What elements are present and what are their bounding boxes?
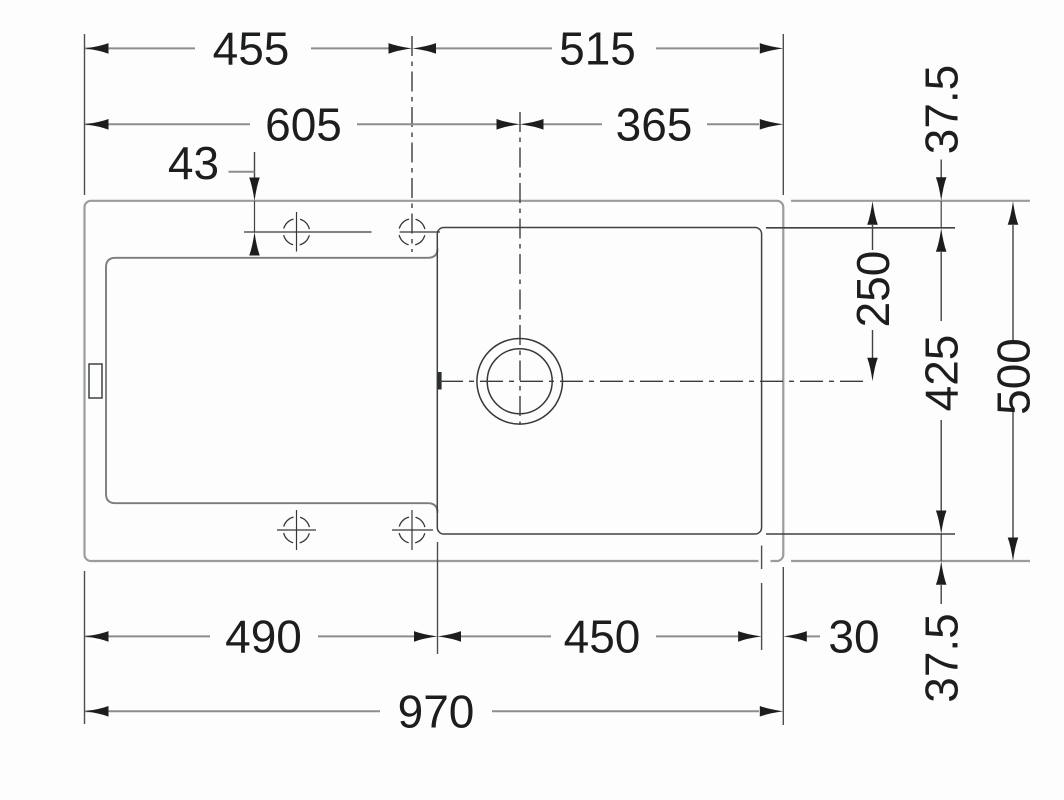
dim 500 x=1013 (1008, 201, 1019, 225)
gap in rim bottom edge at bowl extension crossing (759, 556, 771, 566)
svg-text:455: 455 (213, 23, 290, 75)
svg-text:250: 250 (847, 251, 899, 328)
dim 37.5 top right x=941 (940, 160, 942, 179)
svg-text:37.5: 37.5 (916, 613, 968, 703)
extension line x=437.5 bottom (437, 542, 439, 654)
dim 425 x=941 (936, 228, 947, 252)
svg-text:37.5: 37.5 (916, 65, 968, 155)
svg-text:30: 30 (828, 611, 879, 663)
drainboard outline (106, 249, 438, 513)
sink outer rim outline (85, 201, 784, 561)
svg-text:970: 970 (398, 685, 475, 737)
svg-text:605: 605 (265, 98, 342, 150)
centerline vertical through drain x=520 (519, 112, 521, 424)
tap hole bottom-left circle (283, 517, 309, 543)
tap hole bottom-right cross (411, 510, 413, 550)
tap hole bottom-right circle (399, 517, 425, 543)
svg-text:490: 490 (225, 611, 302, 663)
extension line x=783 bottom (782, 567, 784, 725)
svg-text:365: 365 (616, 98, 693, 150)
dimension row 605/365 y=124.3 (85, 123, 759, 125)
svg-text:515: 515 (559, 23, 636, 75)
dim 37.5 bottom right x=941 (940, 534, 942, 561)
svg-text:500: 500 (988, 338, 1040, 415)
dim 43 vertical line x=254.5 (254, 152, 256, 178)
overflow slot on drainboard left edge (89, 364, 102, 398)
extension line top edge y=201 right (791, 200, 1030, 202)
extension line bottom edge y=561 right (791, 560, 1030, 562)
dim 43 leader (229, 171, 255, 173)
tap hole top-left vertical centerline (296, 212, 298, 252)
extension line bowl bottom y=534 right (766, 533, 955, 535)
extension line right x=783 top (782, 34, 784, 195)
dimension row 970 y=711.3 (85, 710, 759, 712)
dim 43 arrows (249, 178, 260, 202)
bowl outline (437, 228, 761, 535)
dimension row 490/450/30 y=636.4 (85, 635, 820, 637)
extension line x=761.5 bottom (761, 546, 763, 570)
dimension row 455/515 y=48.4 (85, 47, 759, 49)
tap hole top-right circle (399, 219, 425, 245)
tap hole top-left circle (283, 219, 309, 245)
drain outer circle (477, 339, 563, 425)
overflow tick on bowl left edge (437, 372, 441, 390)
tap hole bottom-left cross (296, 510, 298, 550)
centerline horizontal through drain y=381.3 (440, 380, 866, 382)
tap hole top-right horizontal centerline (400, 231, 440, 233)
tap hole top horizontal centerline (244, 231, 372, 233)
extension line bowl top y=228 right (766, 227, 955, 229)
dim 250 x=872.5 (867, 201, 878, 225)
drain inner circle (487, 349, 552, 414)
extension line left x=84.5 top (84, 34, 86, 195)
svg-text:450: 450 (564, 611, 641, 663)
svg-text:425: 425 (916, 335, 968, 412)
centerline vertical through tap hole x=412 (411, 36, 413, 252)
extension line left x=84.5 bottom (84, 571, 86, 724)
svg-text:43: 43 (168, 137, 219, 189)
